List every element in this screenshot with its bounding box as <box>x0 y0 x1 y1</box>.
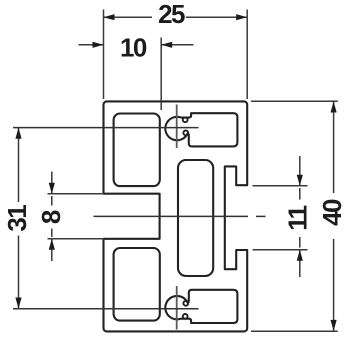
svg-text:8: 8 <box>36 210 66 224</box>
svg-text:40: 40 <box>317 199 347 226</box>
main horizontal centerline <box>94 215 249 217</box>
svg-text:25: 25 <box>158 0 185 29</box>
screw port lips top <box>183 117 188 122</box>
centerline vertical top port <box>176 105 178 149</box>
cavity top-left <box>114 114 160 187</box>
dim 31 line <box>18 128 20 202</box>
centerline horizontal top port / ext 31 top <box>13 127 199 129</box>
dim 10 line + arrows (outside) <box>79 44 104 46</box>
cavity bottom-left <box>114 248 160 321</box>
dim 40 extension lines <box>251 100 338 102</box>
centerline horizontal bottom port / ext 31 bottom <box>13 308 199 310</box>
dim 10 extension line <box>160 38 162 111</box>
dim 11 extension lines <box>253 185 308 187</box>
dim 8 extension lines <box>48 193 105 195</box>
svg-text:31: 31 <box>2 205 32 232</box>
profile outer outline with left notch and right T-slot <box>104 101 248 331</box>
screw port + cavity top <box>165 113 237 146</box>
dim 25 extension lines <box>103 10 105 100</box>
screw port + cavity bottom (mirrored) <box>165 290 237 323</box>
screw port lips bottom <box>183 314 188 319</box>
central cavity <box>178 160 213 276</box>
dim 25 line <box>104 16 153 18</box>
centerline vertical bottom port <box>176 286 178 330</box>
dim 40 line <box>333 102 335 194</box>
svg-text:11: 11 <box>282 205 312 230</box>
dim 8 line + arrows (outside) <box>51 172 53 194</box>
dim 11 line + arrows (outside) <box>299 156 301 186</box>
svg-text:10: 10 <box>120 33 147 63</box>
